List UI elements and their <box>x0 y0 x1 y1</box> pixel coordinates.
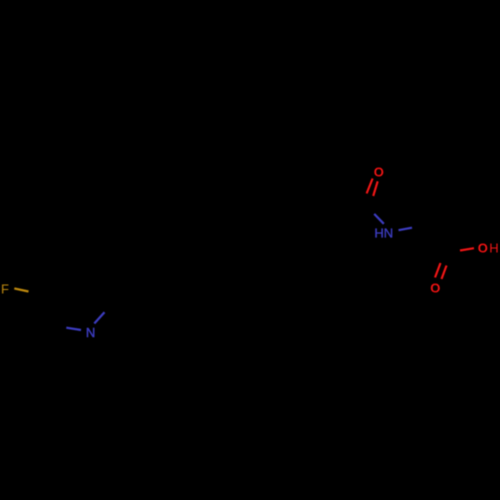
wire N-C pyridine diagonal bond (blue half) <box>94 312 104 323</box>
wire F1-C bond (orange half) <box>14 288 28 291</box>
svg-text:H: H <box>489 240 498 255</box>
wire C-N pyridine left bond (blue half) <box>66 328 81 330</box>
wire acid C=O double bond right segment (red half) <box>442 266 447 280</box>
svg-text:O: O <box>374 165 384 180</box>
svg-text:HN: HN <box>374 226 393 241</box>
svg-text:F: F <box>1 281 9 296</box>
wire N-Calpha bond (blue half) <box>399 228 413 231</box>
svg-text:O: O <box>478 241 488 256</box>
svg-text:O: O <box>430 280 440 295</box>
wire amide C=O double bond right segment (red half) <box>373 181 378 196</box>
svg-text:N: N <box>86 325 95 340</box>
wire amide C-N diagonal bond (blue half) <box>374 214 384 224</box>
wire C-OH bond (red half) <box>460 248 474 250</box>
wire amide C=O double bond left segment (red half) <box>367 179 373 194</box>
wire acid C=O double bond left segment (red half) <box>435 263 441 278</box>
